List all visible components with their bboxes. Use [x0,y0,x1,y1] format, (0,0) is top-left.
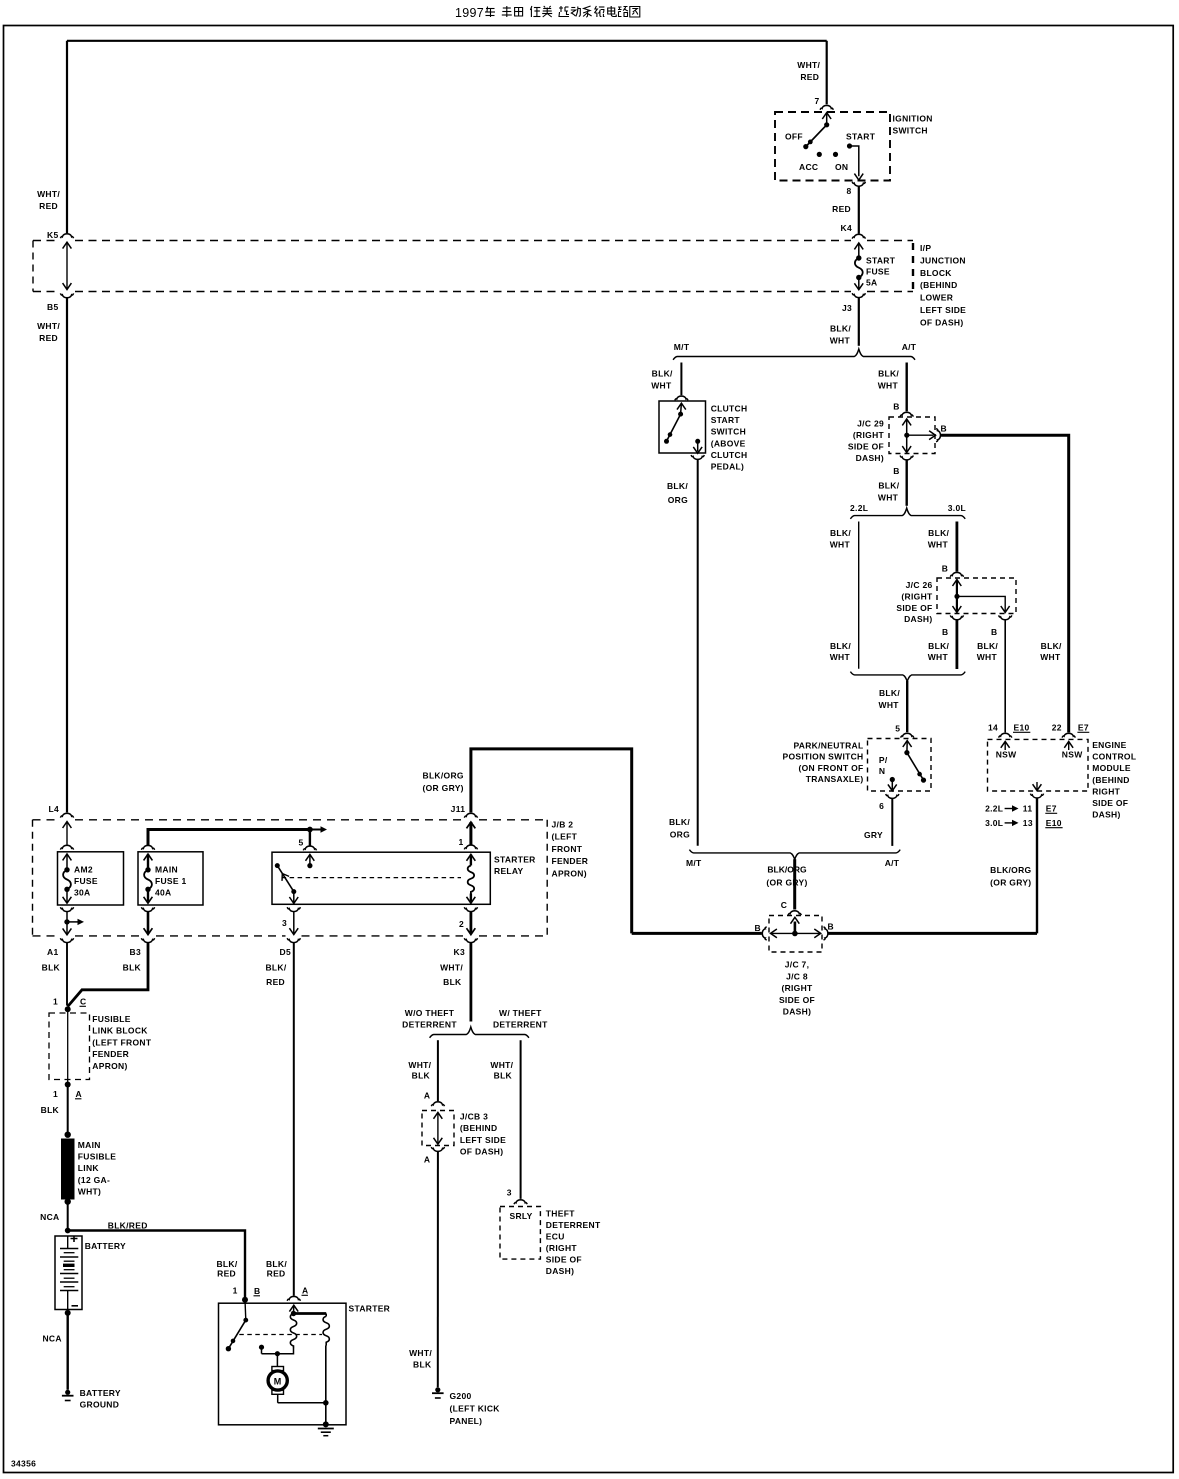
svg-text:DASH): DASH) [1092,810,1120,820]
svg-text:WHT: WHT [830,540,851,550]
svg-text:WHT): WHT) [78,1186,101,1196]
svg-text:13: 13 [1023,818,1033,828]
svg-text:J/CB 3: J/CB 3 [460,1111,488,1121]
svg-text:BLK/: BLK/ [1041,641,1062,651]
svg-text:N: N [879,766,885,776]
svg-text:START: START [846,132,876,142]
svg-text:B: B [828,922,834,932]
svg-text:ORG: ORG [668,495,688,505]
svg-text:34356: 34356 [11,1459,36,1469]
svg-text:WHT: WHT [651,381,672,391]
svg-text:B: B [893,402,899,412]
svg-text:LEFT SIDE: LEFT SIDE [460,1135,506,1145]
svg-text:2: 2 [459,919,464,929]
svg-text:WHT: WHT [928,540,949,550]
svg-text:B: B [991,627,997,637]
svg-text:BLK/: BLK/ [878,481,899,491]
svg-text:DASH): DASH) [856,453,884,463]
svg-text:WHT: WHT [830,336,851,346]
svg-text:(OR GRY): (OR GRY) [990,878,1031,888]
svg-text:DASH): DASH) [546,1266,574,1276]
svg-text:B: B [893,466,899,476]
svg-text:BLK/ORG: BLK/ORG [990,865,1031,875]
svg-text:J3: J3 [842,303,852,313]
svg-text:RED: RED [39,201,58,211]
svg-text:WHT: WHT [879,700,900,710]
svg-text:CONTROL: CONTROL [1092,752,1136,762]
svg-text:WHT/: WHT/ [490,1060,513,1070]
svg-text:BLK: BLK [42,963,61,973]
svg-text:SWITCH: SWITCH [893,126,928,136]
svg-text:WHT/: WHT/ [409,1348,432,1358]
svg-text:WHT: WHT [878,493,899,503]
svg-text:ORG: ORG [670,830,690,840]
svg-text:J/C 29: J/C 29 [857,419,884,429]
svg-text:A: A [424,1155,430,1165]
svg-text:ECU: ECU [546,1232,565,1242]
svg-text:K3: K3 [454,947,465,957]
svg-text:FENDER: FENDER [552,856,589,866]
svg-text:BLK: BLK [494,1071,513,1081]
svg-text:C: C [80,997,86,1007]
svg-text:M/T: M/T [686,858,702,868]
svg-text:PARK/NEUTRAL: PARK/NEUTRAL [793,741,863,751]
svg-text:J/C 7,: J/C 7, [785,960,809,970]
svg-text:WHT/: WHT/ [797,60,820,70]
svg-text:NCA: NCA [42,1334,61,1344]
svg-text:MAIN: MAIN [78,1140,101,1150]
svg-text:P/: P/ [879,755,888,765]
svg-text:BLK/: BLK/ [928,528,949,538]
svg-text:J/C 8: J/C 8 [786,971,808,981]
svg-text:WHT/: WHT/ [408,1060,431,1070]
svg-text:(BEHIND: (BEHIND [460,1123,498,1133]
svg-text:RED: RED [39,333,58,343]
svg-text:ACC: ACC [799,162,818,172]
svg-text:SIDE OF: SIDE OF [1092,798,1128,808]
svg-text:THEFT: THEFT [546,1209,575,1219]
svg-text:1997: 1997 [455,6,484,20]
svg-text:1: 1 [458,837,463,847]
svg-text:3: 3 [507,1188,512,1198]
svg-text:GRY: GRY [864,830,883,840]
svg-text:DASH): DASH) [783,1007,811,1017]
svg-text:RED: RED [800,72,819,82]
svg-text:1: 1 [53,1089,58,1099]
svg-text:M/T: M/T [674,342,690,352]
svg-text:OFF: OFF [785,132,803,142]
svg-text:2.2L: 2.2L [985,804,1003,814]
svg-text:CLUTCH: CLUTCH [711,450,748,460]
svg-text:BLK/: BLK/ [879,688,900,698]
svg-text:POSITION SWITCH: POSITION SWITCH [783,752,864,762]
svg-text:(ON FRONT OF: (ON FRONT OF [799,763,864,773]
svg-text:W/O THEFT: W/O THEFT [405,1008,455,1018]
svg-text:AM2: AM2 [74,864,93,874]
svg-text:LOWER: LOWER [920,293,953,303]
svg-text:LINK: LINK [78,1163,100,1173]
svg-text:WHT/: WHT/ [440,963,463,973]
svg-text:(LEFT: (LEFT [552,832,578,842]
svg-text:TRANSAXLE): TRANSAXLE) [806,774,864,784]
svg-text:B3: B3 [130,947,141,957]
svg-text:3.0L: 3.0L [985,818,1003,828]
svg-text:RED: RED [267,1269,286,1279]
svg-text:BLK/RED: BLK/RED [108,1221,148,1231]
svg-text:E10: E10 [1014,723,1030,733]
svg-text:5: 5 [895,724,900,734]
svg-text:SIDE OF: SIDE OF [779,995,815,1005]
svg-text:SIDE OF: SIDE OF [848,442,884,452]
svg-text:(BEHIND: (BEHIND [920,280,958,290]
svg-text:MODULE: MODULE [1092,763,1131,773]
svg-text:PANEL): PANEL) [450,1416,483,1426]
svg-text:J/B 2: J/B 2 [552,820,574,830]
svg-text:DETERRENT: DETERRENT [546,1220,601,1230]
svg-text:WHT: WHT [830,652,851,662]
svg-text:BLK/: BLK/ [266,1259,287,1269]
svg-text:8: 8 [846,186,851,196]
svg-text:JUNCTION: JUNCTION [920,255,966,265]
svg-text:BLK: BLK [413,1360,432,1370]
svg-text:BLK/ORG: BLK/ORG [423,771,464,781]
svg-text:BLK/: BLK/ [830,528,851,538]
svg-text:BATTERY: BATTERY [80,1388,121,1398]
svg-text:START: START [711,415,741,425]
svg-text:B5: B5 [47,302,58,312]
svg-text:APRON): APRON) [92,1061,127,1071]
svg-text:(BEHIND: (BEHIND [1092,775,1130,785]
svg-text:LINK BLOCK: LINK BLOCK [92,1026,148,1036]
svg-text:(LEFT KICK: (LEFT KICK [450,1404,501,1414]
svg-text:(ABOVE: (ABOVE [711,438,746,448]
svg-text:A1: A1 [47,947,58,957]
svg-text:FUSE 1: FUSE 1 [155,876,187,886]
svg-text:BLK/: BLK/ [669,817,690,827]
svg-text:BLK: BLK [123,963,142,973]
svg-text:PEDAL): PEDAL) [711,462,744,472]
svg-text:FUSIBLE: FUSIBLE [92,1014,130,1024]
svg-text:B: B [941,423,947,433]
svg-text:FUSE: FUSE [866,267,890,277]
svg-text:ENGINE: ENGINE [1092,740,1126,750]
svg-text:30A: 30A [74,887,91,897]
svg-text:2.2L: 2.2L [850,503,868,513]
svg-text:RELAY: RELAY [494,866,524,876]
svg-text:RIGHT: RIGHT [1092,786,1120,796]
svg-text:DETERRENT: DETERRENT [493,1019,548,1029]
svg-text:(RIGHT: (RIGHT [901,591,933,601]
svg-text:(12 GA-: (12 GA- [78,1175,110,1185]
svg-text:WHT/: WHT/ [37,189,60,199]
svg-text:FENDER: FENDER [92,1049,129,1059]
svg-text:DASH): DASH) [904,614,932,624]
svg-text:40A: 40A [155,887,172,897]
svg-text:FRONT: FRONT [552,844,583,854]
svg-text:GROUND: GROUND [80,1400,120,1410]
svg-text:1: 1 [233,1286,238,1296]
svg-text:K4: K4 [841,223,852,233]
svg-text:CLUTCH: CLUTCH [711,404,748,414]
svg-text:A/T: A/T [902,342,917,352]
svg-text:ON: ON [835,162,848,172]
svg-text:E7: E7 [1078,723,1089,733]
svg-text:5: 5 [298,838,303,848]
svg-text:A/T: A/T [885,858,900,868]
svg-text:DETERRENT: DETERRENT [402,1019,457,1029]
svg-text:7: 7 [814,96,819,106]
svg-text:BLK: BLK [443,977,462,987]
svg-text:NSW: NSW [996,750,1017,760]
svg-text:6: 6 [879,801,884,811]
svg-text:M: M [274,1376,282,1386]
svg-text:E10: E10 [1046,818,1062,828]
svg-text:MAIN: MAIN [155,864,178,874]
svg-text:OF DASH): OF DASH) [460,1147,503,1157]
svg-text:11: 11 [1023,804,1033,814]
svg-text:APRON): APRON) [552,868,587,878]
svg-text:SIDE OF: SIDE OF [546,1255,582,1265]
svg-text:1: 1 [53,997,58,1007]
svg-text:IGNITION: IGNITION [893,114,933,124]
svg-text:3.0L: 3.0L [948,503,966,513]
svg-text:BLK/: BLK/ [667,481,688,491]
svg-text:SRLY: SRLY [510,1211,533,1221]
svg-text:WHT: WHT [878,381,899,391]
svg-text:WHT/: WHT/ [37,321,60,331]
svg-text:NCA: NCA [40,1212,59,1222]
svg-text:BLK/: BLK/ [830,641,851,651]
svg-text:C: C [781,900,787,910]
svg-text:A: A [424,1091,430,1101]
svg-text:RED: RED [832,204,851,214]
svg-text:STARTER: STARTER [494,855,536,865]
svg-text:G200: G200 [450,1391,472,1401]
svg-text:BLK: BLK [412,1071,431,1081]
svg-text:BLK/: BLK/ [928,641,949,651]
svg-text:RED: RED [266,977,285,987]
svg-text:RED: RED [217,1269,236,1279]
svg-text:D5: D5 [280,947,291,957]
svg-text:3: 3 [282,918,287,928]
svg-text:BLK/: BLK/ [977,641,998,651]
svg-text:BLK/: BLK/ [830,324,851,334]
svg-text:B: B [254,1286,260,1296]
svg-text:BLK/: BLK/ [878,369,899,379]
svg-text:NSW: NSW [1062,750,1083,760]
svg-text:WHT: WHT [1040,652,1061,662]
svg-text:(RIGHT: (RIGHT [546,1243,578,1253]
svg-text:SWITCH: SWITCH [711,427,746,437]
svg-text:L4: L4 [48,804,59,814]
svg-text:WHT: WHT [977,652,998,662]
svg-text:BLK/ORG: BLK/ORG [767,865,807,875]
svg-text:(RIGHT: (RIGHT [853,430,885,440]
svg-text:(OR GRY): (OR GRY) [423,783,464,793]
svg-text:B: B [942,564,948,574]
svg-text:STARTER: STARTER [349,1304,391,1314]
svg-text:W/ THEFT: W/ THEFT [499,1008,542,1018]
svg-text:(RIGHT: (RIGHT [781,983,813,993]
svg-text:OF DASH): OF DASH) [920,317,963,327]
svg-text:BLOCK: BLOCK [920,268,952,278]
svg-text:BLK/: BLK/ [652,369,673,379]
svg-text:B: B [942,627,948,637]
svg-text:START: START [866,256,896,266]
svg-text:(OR GRY): (OR GRY) [766,877,807,887]
svg-text:5A: 5A [866,278,877,288]
svg-text:BATTERY: BATTERY [85,1241,126,1251]
svg-text:A: A [302,1286,308,1296]
svg-text:(LEFT FRONT: (LEFT FRONT [92,1037,152,1047]
svg-text:BLK/: BLK/ [265,963,286,973]
svg-text:A: A [76,1089,82,1099]
svg-text:I/P: I/P [920,243,931,253]
svg-text:K5: K5 [47,230,58,240]
svg-text:SIDE OF: SIDE OF [896,603,932,613]
svg-text:E7: E7 [1046,804,1057,814]
svg-text:B: B [755,923,761,933]
svg-text:FUSIBLE: FUSIBLE [78,1152,116,1162]
svg-text:14: 14 [988,723,998,733]
svg-text:FUSE: FUSE [74,876,98,886]
svg-text:22: 22 [1052,723,1062,733]
svg-text:J/C 26: J/C 26 [906,580,933,590]
svg-text:BLK: BLK [41,1105,60,1115]
svg-text:LEFT SIDE: LEFT SIDE [920,305,966,315]
svg-text:BLK/: BLK/ [216,1259,237,1269]
svg-text:J11: J11 [451,804,466,814]
svg-text:WHT: WHT [928,652,949,662]
